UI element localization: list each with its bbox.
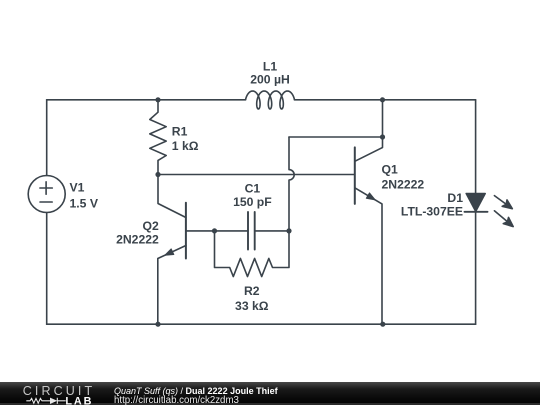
footer bar: [0, 382, 540, 405]
svg-text:150 pF: 150 pF: [233, 195, 272, 209]
svg-text:2N2222: 2N2222: [382, 177, 425, 191]
footer title text: [114, 386, 278, 396]
node junction dot Q1 collector / feedback: [380, 134, 385, 139]
resistor R1: [150, 100, 166, 175]
svg-text:Q1: Q1: [382, 163, 398, 177]
node junction dot Q1 collector top rail: [380, 97, 385, 102]
wire C1 right node up with hop over base wire: [289, 137, 294, 231]
svg-text:L1: L1: [263, 59, 277, 73]
svg-text:33 kΩ: 33 kΩ: [235, 299, 269, 313]
svg-text:R1: R1: [172, 125, 188, 139]
svg-text:1.5 V: 1.5 V: [70, 196, 99, 210]
wire top rail left segment: [47, 99, 246, 101]
svg-text:LTL-307EE: LTL-307EE: [401, 204, 463, 218]
LED D1: [465, 194, 514, 227]
transistor Q1: [355, 147, 382, 324]
CircuitLab logo: [0, 382, 110, 405]
footer url text: [114, 395, 239, 405]
wire bottom rail: [47, 323, 476, 325]
node junction dot Q2 emitter bottom rail: [155, 322, 160, 327]
svg-text:V1: V1: [70, 181, 85, 195]
wire right rail upper (to LED anode): [475, 100, 477, 194]
wire Q2 collector branch: [158, 175, 186, 218]
node junction dot R1 bottom / base net: [155, 172, 160, 177]
wire left rail lower: [46, 213, 48, 325]
wire base net: node R1 bottom to Q1 base: [158, 174, 355, 176]
node junction dot C1 right: [286, 228, 291, 233]
node junction dot R1 top: [155, 97, 160, 102]
svg-text:LAB: LAB: [65, 395, 93, 405]
resistor R2: [215, 231, 290, 277]
wire right rail lower (LED cathode to bottom rail): [475, 212, 477, 324]
svg-text:D1: D1: [447, 191, 463, 205]
node junction dot C1 left / Q2 base: [212, 228, 217, 233]
inductor L1: [246, 91, 295, 109]
svg-text:R2: R2: [244, 284, 260, 298]
wire top rail right segment: [294, 99, 475, 101]
svg-text:200 µH: 200 µH: [250, 72, 290, 86]
node junction dot Q1 emitter bottom rail: [380, 322, 385, 327]
transistor Q2: [158, 203, 215, 324]
svg-text:Q2: Q2: [143, 219, 159, 233]
wire left rail upper: [46, 100, 48, 176]
svg-text:C1: C1: [245, 181, 261, 195]
wire Q1 collector branch: [355, 100, 383, 162]
wire feedback to Q1 collector node: [289, 136, 383, 138]
capacitor C1: [215, 212, 290, 250]
voltage source V1: [28, 176, 65, 213]
svg-text:2N2222: 2N2222: [116, 233, 159, 247]
svg-text:1 kΩ: 1 kΩ: [172, 139, 199, 153]
